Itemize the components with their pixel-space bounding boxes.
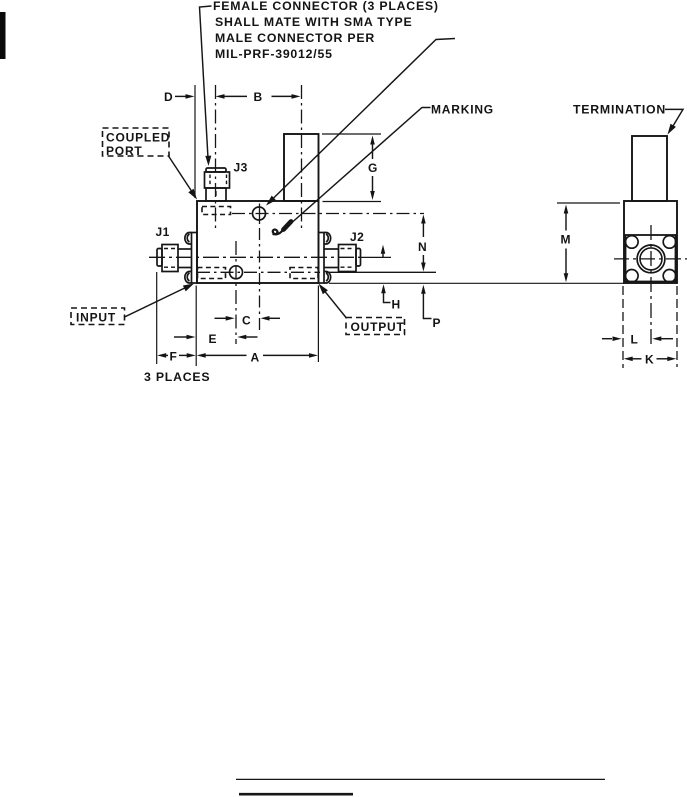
svg-text:P: P [433, 316, 442, 330]
leader from OUTPUT to body corner [319, 284, 347, 318]
dimension G extension lines [322, 134, 381, 202]
J1 label [156, 225, 170, 239]
svg-text:H: H [392, 298, 401, 312]
marking squiggle symbol [273, 222, 291, 235]
svg-text:J3: J3 [234, 161, 248, 175]
right view termination block [632, 136, 667, 201]
connector J1 [157, 233, 197, 284]
D B extension line at body left edge [194, 85, 196, 198]
COUPLED PORT label box [103, 128, 170, 156]
svg-text:F: F [170, 350, 178, 364]
J3 label [234, 161, 248, 175]
right view vertical centerline [650, 225, 652, 346]
leader from COUPLED PORT to body corner [169, 156, 198, 200]
dimension E [174, 332, 258, 346]
svg-text:OUTPUT: OUTPUT [351, 320, 405, 334]
dimension C [215, 314, 281, 328]
dimension B [216, 90, 301, 104]
svg-text:G: G [368, 161, 378, 175]
coupler body front view [197, 201, 319, 283]
OUTPUT label box [346, 318, 405, 335]
dimension K [624, 353, 677, 367]
connector J3 [205, 168, 230, 201]
svg-text:A: A [251, 351, 260, 365]
INPUT label box [71, 308, 125, 325]
flange corner hole top right [663, 236, 676, 249]
leader from MARKING to marking squiggle [288, 108, 431, 227]
center connector inner circle [640, 248, 662, 270]
TERMINATION label [573, 103, 666, 117]
dimension F [157, 350, 196, 364]
leader from note right to marking hole [266, 39, 455, 206]
dimension D [164, 90, 195, 104]
J3 vertical centerline [215, 85, 217, 230]
svg-text:N: N [418, 240, 427, 254]
termination vertical centerline front view [301, 85, 303, 231]
svg-text:L: L [631, 333, 639, 347]
center connector outer circle [637, 245, 665, 273]
termination block front view [284, 134, 319, 201]
extension line J1 face [156, 272, 158, 364]
dimension P [421, 285, 441, 330]
dimension A [197, 351, 318, 365]
connector J2 [319, 233, 361, 284]
lower holes horizontal centerline [197, 271, 436, 273]
extension line body left edge lower [195, 286, 197, 367]
svg-text:3 PLACES: 3 PLACES [144, 370, 210, 384]
svg-text:E: E [209, 332, 218, 346]
svg-text:TERMINATION: TERMINATION [573, 103, 666, 117]
svg-text:C: C [242, 314, 251, 328]
K L extension line right [676, 286, 678, 367]
svg-text:K: K [645, 353, 654, 367]
svg-text:COUPLED: COUPLED [106, 131, 170, 145]
svg-text:SHALL MATE WITH SMA TYPE: SHALL MATE WITH SMA TYPE [215, 15, 412, 29]
right view body block [624, 201, 677, 283]
MARKING label [431, 103, 494, 117]
flange corner hole bottom right [663, 270, 676, 283]
J2 label [350, 230, 364, 244]
note text FEMALE CONNECTOR [213, 0, 439, 61]
extension line body right edge lower [317, 286, 319, 363]
dimension N [418, 215, 427, 272]
svg-text:INPUT: INPUT [76, 311, 116, 325]
flange corner hole bottom left [626, 270, 639, 283]
leader from INPUT to J1 flange [125, 284, 195, 318]
dimension L [602, 333, 673, 347]
svg-text:J1: J1 [156, 225, 170, 239]
svg-text:MALE CONNECTOR PER: MALE CONNECTOR PER [215, 31, 375, 45]
svg-text:FEMALE CONNECTOR (3 PLACES): FEMALE CONNECTOR (3 PLACES) [213, 0, 439, 13]
input port hidden counterbore (dashed) [198, 268, 226, 279]
right view horizontal centerline [614, 258, 687, 260]
flange corner hole top left [626, 236, 639, 249]
leader from TERMINATION to termination block [665, 109, 683, 134]
dimension G [368, 136, 378, 201]
output port hidden counterbore (dashed) [290, 268, 318, 279]
svg-text:J2: J2 [350, 230, 364, 244]
right view connector flange square [626, 235, 676, 282]
lower hole circle [230, 266, 243, 279]
lower hole vertical centerline [235, 241, 237, 344]
page edge black mark [0, 12, 6, 59]
body bottom edge extended right [329, 282, 624, 284]
J1 J2 horizontal centerline [149, 256, 391, 258]
K L extension line left [622, 286, 624, 368]
dimension M [561, 205, 572, 283]
leader from note to J3 [200, 6, 212, 166]
coupled port hidden counterbore (dashed) [202, 207, 231, 215]
upper holes horizontal centerline [232, 213, 424, 215]
3 PLACES note [144, 370, 210, 384]
svg-text:PORT: PORT [106, 144, 143, 158]
footnote rule thin [236, 778, 605, 780]
small arrow on centerline right of J2 [381, 245, 386, 258]
marking hole circle [253, 207, 266, 220]
svg-text:B: B [254, 90, 263, 104]
svg-text:D: D [164, 90, 173, 104]
dimension H [381, 284, 400, 311]
svg-text:MIL-PRF-39012/55: MIL-PRF-39012/55 [215, 47, 333, 61]
marking hole vertical centerline [259, 204, 261, 334]
svg-text:M: M [561, 233, 572, 247]
footnote rule thick [239, 793, 353, 796]
svg-text:MARKING: MARKING [431, 103, 494, 117]
right view top edge extended left [557, 202, 620, 204]
